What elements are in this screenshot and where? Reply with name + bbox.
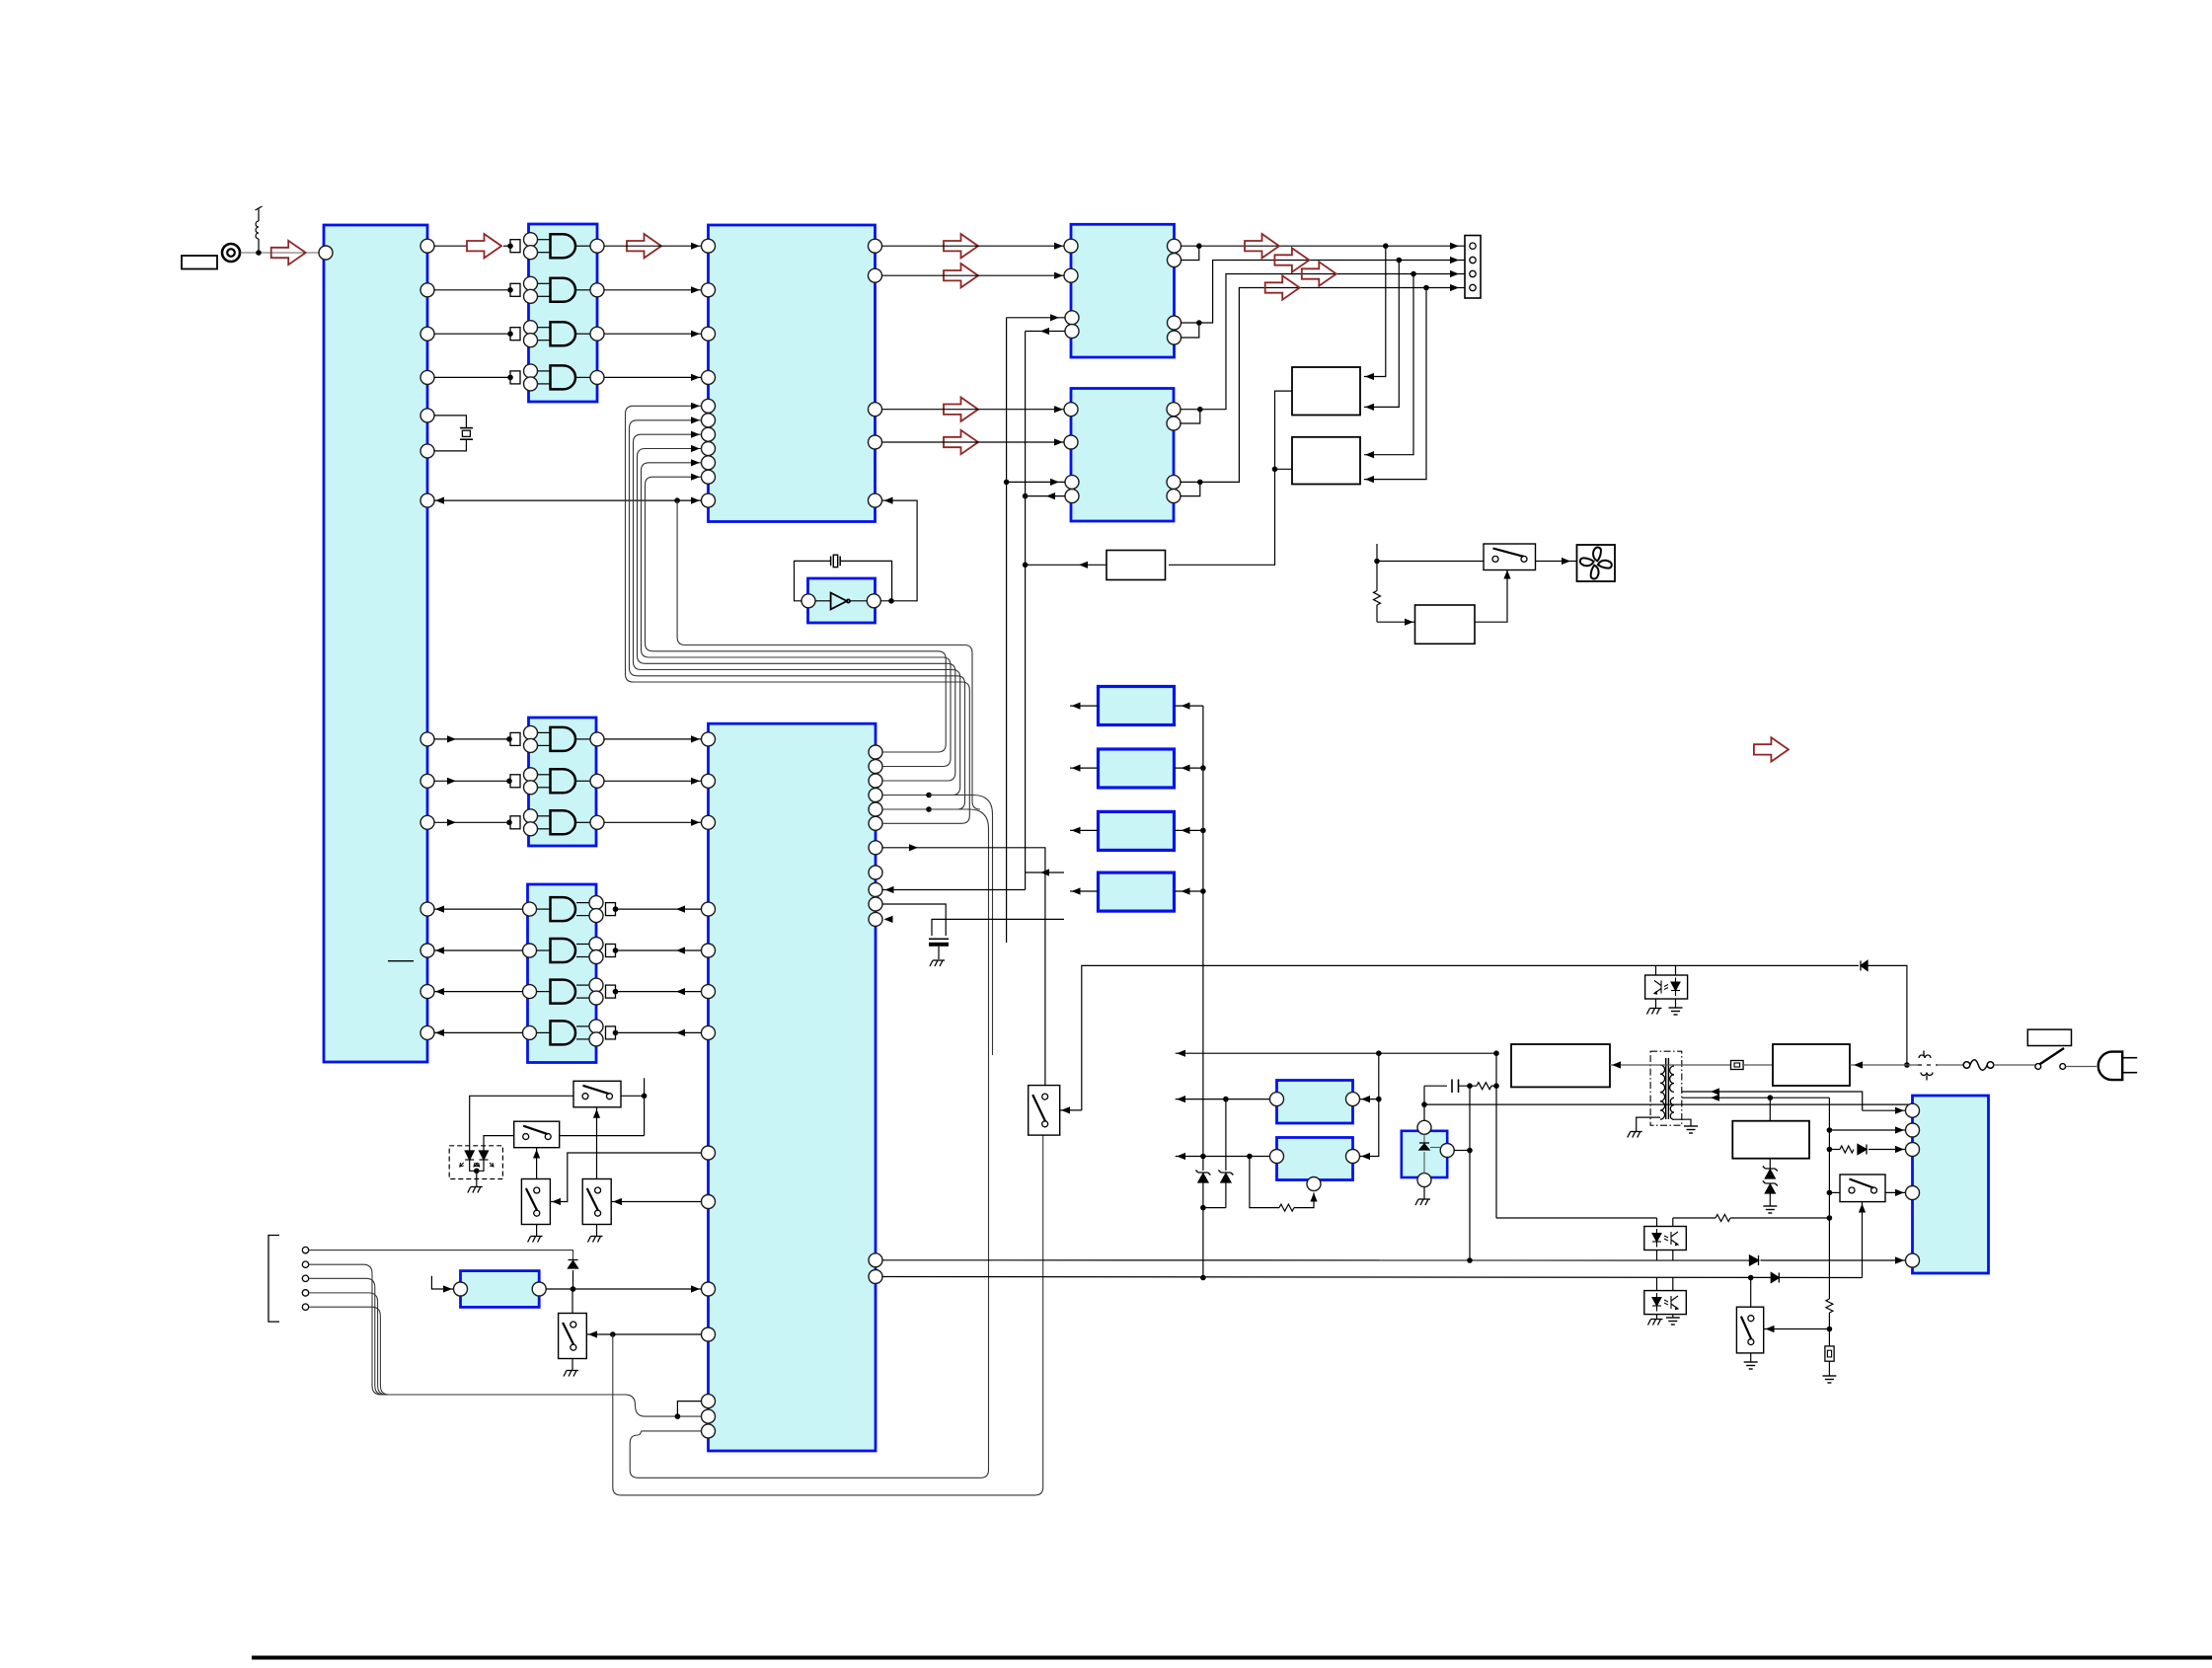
diode D5 [1750,1255,1759,1265]
reg box C4 [1099,872,1175,911]
wire reg box C4 left [1070,890,1098,892]
wire PC2 collector [1672,1278,1674,1291]
wire F3 gnd [1828,1361,1830,1376]
transformer primary [1660,1065,1665,1119]
wire B3 gnd [1423,1187,1425,1199]
wire IC1.1-G1 [434,245,467,247]
pin IC6 g1 [702,732,716,746]
terminal CN1-3 [1470,270,1476,276]
pin IC1 out4 [420,370,434,384]
wire pin3 feed [1869,1149,1906,1151]
wire W3 bot [1769,1159,1771,1169]
wire row3 rise [1181,274,1466,410]
pin IC3 b2 [702,414,716,427]
inverter U2 [815,593,867,610]
wire PC2 cathode [1656,1315,1658,1319]
crystal X1 [434,416,473,451]
node G6 in [506,779,512,785]
pin IC4 o3 [1168,316,1182,330]
terminal T2 [302,1261,308,1267]
wire T4 [309,1293,622,1395]
pin IC6 r11 [869,912,882,926]
node AUX [571,1286,576,1292]
wire line1234 left [1496,1217,1657,1219]
wire B3 top up [1423,1086,1425,1120]
wire T1 sec gnd [1674,1119,1691,1126]
wire F1-W2 [1743,1064,1773,1066]
node v2 fan [1023,563,1029,569]
wire LED join [470,1160,484,1171]
node B1 feed [1376,1097,1382,1102]
wire G5-IC6 [604,738,702,740]
node l2-z2 [1223,1097,1229,1102]
terminal CN1-4 [1470,284,1476,290]
wire IC3-IC5 r1 [882,409,1065,411]
wire line1119 [1424,1103,1913,1105]
wire G6-IC6 [604,780,702,782]
wire IC6-G8 [616,908,702,910]
input bracket G4 [510,371,520,384]
wire S5 top [572,1289,573,1314]
pin IC1 g2 [420,774,434,788]
pin IC6 r1 [869,745,882,759]
wire IC1.2-G2 [434,289,510,291]
wire reg box C4 right [1175,890,1203,892]
terminal T4 [302,1290,308,1296]
pin IC3 out1 [869,239,882,253]
opto PC3 [1645,975,1688,999]
wire IC3-IC4 r2 [882,274,1065,276]
transformer sec1 [1670,1066,1674,1092]
wire v1 to IC4 [1007,317,1065,319]
wire S5 gnd [572,1359,573,1371]
wire reg box C1 right [1175,705,1203,707]
terminal CN1-1 [1470,243,1476,249]
wire PC1 collector [1672,1218,1674,1227]
wire row3-RY2 [1364,274,1413,455]
wire S9 bottom [1862,1202,1864,1276]
wire b3 link [640,1431,702,1435]
node row2 join [1196,320,1202,326]
IC2 gate array block [529,224,598,402]
node l3-r [1247,1154,1253,1160]
wire line1234 right [1673,1217,1716,1219]
wire G9-IC1 [434,949,523,951]
wire IC1-IC3 feedback [434,499,702,501]
pin IC4 in4 [1065,325,1079,339]
wire row4 join [1181,482,1200,495]
red arrow A12 [1754,737,1789,761]
terminal T5 [302,1304,308,1310]
diode D6 [1858,1145,1867,1155]
zener ZD4 [1763,1181,1778,1194]
pin IC4 o4 [1168,331,1182,344]
wire PC3 em gnd [1655,999,1657,1008]
node r4 branch [926,793,932,798]
wire F2-S8 [1994,1064,2035,1066]
wire row2-RY1 [1364,261,1399,408]
node v1852 a [1827,1127,1833,1133]
pin IC6 b1 [702,1395,716,1408]
wire A2-G1 [503,245,510,247]
wire sec1 line [1682,1092,1863,1110]
resistor block R10 [1106,551,1166,580]
wire jack to block1 [241,252,324,254]
wire zjoin [1203,1207,1226,1209]
switch label box [2027,1029,2071,1045]
reg box C3 [1099,811,1175,850]
input bracket G5 [510,732,520,745]
node sec2-W3 [1768,1095,1774,1100]
wire z down [1202,1208,1204,1278]
node row4 join [1197,480,1203,486]
pin IC1 l3 [420,985,434,999]
wire S5 long [613,1135,1043,1495]
wire IC6-G9 [616,949,702,951]
wire S2 right [560,1135,645,1137]
IC1 main block [324,225,427,1062]
fan motor M1 [1577,545,1616,581]
switch S9 [1840,1175,1885,1202]
node B3 line [1421,1101,1427,1107]
aux interface box [461,1271,540,1308]
diode D7 [1771,1273,1779,1283]
pin IC3 in3 [702,327,716,341]
pin B1 in [1346,1093,1360,1106]
wire bus v2 [1025,332,1027,890]
node G7 in [506,820,512,826]
node zb1 [1200,765,1206,771]
pin B2 out [1270,1150,1284,1164]
pin IC3 osc [869,493,882,507]
wire PC2 anode [1656,1278,1658,1291]
wire row2 rise [1199,261,1465,324]
AND gate G9 [523,938,604,964]
pin IC3 b4 [702,442,716,456]
LED indicator box [449,1146,502,1179]
thermal fuse F2 [1963,1060,1994,1071]
pin IC1 g1 [420,732,434,746]
pin IC6 in3 [702,1282,716,1296]
pin IC1 l2 [420,944,434,957]
noise filter block W1 [1511,1044,1610,1087]
node zb2 [1200,828,1206,834]
wire IC6-S3 [551,1153,702,1202]
ground PC3 tr [1647,1009,1662,1015]
wire reg box C3 right [1175,829,1203,831]
pin IC6 r5 [869,802,882,816]
pin IC6 r6 [869,816,882,830]
wire PC1 anode [1656,1218,1658,1227]
IC5 block [1071,389,1174,522]
diode D4 [1861,960,1868,970]
node G9 in [613,948,619,953]
AND gate G1 [524,233,605,260]
node G3 in [507,331,513,337]
wire PC3 cath gnd [1675,999,1677,1008]
wire bus c3 [882,663,955,781]
wire row2 join [1181,322,1199,324]
pin IC5 in2 [1064,435,1078,449]
red arrow A1 [271,241,306,265]
transformer T1 box [1650,1051,1682,1125]
wire fb line7 [677,500,980,809]
pin IC1 l1 [420,902,434,916]
wire fan-SW [1377,561,1484,563]
wire PC1 cathode [1656,1251,1658,1261]
wire cap-res [1459,1085,1478,1087]
AND gate G11 [523,1020,604,1046]
LED D2 [474,1151,494,1167]
wire IC6-G11 [616,1031,702,1033]
wire G1-IC3 [604,245,701,247]
red arrow A11 [1265,275,1300,299]
node S1S2 [642,1094,648,1099]
AND gate G4 [524,364,605,391]
pin IC1 out2 [420,283,434,297]
pin IC6 r13 [869,1270,882,1284]
transformer sec2 [1670,1098,1674,1119]
wire ZD4 gnd [1769,1193,1771,1206]
pin IC5 o3 [1167,475,1181,489]
wire row1 [1181,245,1465,247]
node row1 drop [1383,243,1389,249]
node G4 in [507,375,513,381]
wire row4 rise [1181,288,1466,483]
shunt reg B3 [1402,1131,1447,1177]
wire v1489 [1469,1086,1471,1260]
red arrow A9 [1274,248,1309,271]
relay driver RY1 [1292,367,1360,416]
pin IC1 out1 [420,239,434,253]
wire bus b4 [638,449,929,664]
resistor R11 [1376,562,1378,591]
wire pin1 feed [1863,1109,1906,1111]
crystal X2 [831,555,841,567]
node y978-AC [1904,1062,1910,1068]
AND gate G8 [523,896,604,923]
wire S4 gnd [596,1225,598,1237]
ground S5 [564,1371,578,1377]
ground C20 [930,960,945,966]
wire osc loop2 [840,561,891,600]
ground S7 [1744,1362,1758,1369]
wire AC main [1650,1064,1731,1066]
pin B3 bot [1417,1174,1431,1187]
ground T1 primary [1628,1132,1642,1138]
wire ZD1 bot [1202,1182,1204,1208]
wire W1 arrow [1610,1064,1650,1066]
ground PC2 tr [1666,1318,1680,1325]
node b2 branch [675,1413,681,1419]
wire r10-C20 [882,904,946,936]
pin IC1 xtal2 [420,444,434,458]
input bracket G2 [510,283,520,296]
pin IC6 l3 [702,985,716,999]
pin IC3 b5 [702,456,716,470]
input bracket G11 [606,1026,616,1039]
wire PC3 anode [1675,965,1677,975]
wire row1 join [1181,246,1199,260]
wire r9 bus [882,889,1026,891]
wire T3 [309,1278,622,1395]
reg box C2 [1099,749,1175,788]
wire G10-IC1 [434,991,523,993]
wire PC1 emitter [1672,1251,1674,1261]
pin AUX in [454,1282,468,1296]
node zjoin [1200,1205,1206,1211]
AND gate G3 [524,321,605,347]
IC7 gate block [529,718,597,846]
wire pin3 res [1829,1149,1840,1151]
AND gate G10 [523,978,604,1005]
pin P 5 [1906,1253,1920,1267]
pin IC3 in1 [702,239,716,253]
antenna inductor L1 [256,206,263,253]
red arrow A3 [627,234,661,258]
transformer core [1665,1058,1667,1119]
AND gate G7 [524,809,605,836]
wire bus c6 [882,682,969,823]
wire T1 [309,1251,573,1260]
wire IC1-G6 [434,780,510,782]
wire AUX out [546,1288,701,1290]
opto PC1 [1644,1227,1687,1251]
pin AUX out [532,1282,546,1296]
pin IC6 l1 [702,902,716,916]
pin IC1 l4 [420,1025,434,1039]
wire stub line3 [1176,1156,1277,1158]
node v1852 e [1827,1327,1833,1332]
node v1489 b3 [1467,1148,1473,1154]
wire reg box C2 right [1175,767,1203,769]
wire G2-IC3 [604,289,701,291]
node G10 in [613,989,619,995]
zener ZD1 [1195,1171,1210,1183]
pin B2 in [1346,1150,1360,1164]
zener ZD2 [1225,1099,1227,1171]
wire R21-dn [1828,1313,1830,1346]
wire osc loop [795,561,831,600]
wire tbus corner [622,1395,702,1416]
node feedback branch [674,497,680,503]
wire b1 branch [677,1402,701,1417]
node v1852 c [1827,1190,1833,1196]
wire S1 stub [644,1078,646,1135]
pin IC6 g3 [702,815,716,829]
pin IC3 out2 [869,268,882,282]
wire v2 to IC6 [1026,872,1064,873]
wire IC6-S4 [611,1201,701,1203]
node G2 in [507,287,513,293]
node RY2 out [1272,467,1278,473]
switch S1 [573,1081,621,1107]
wire R10 out [1026,564,1106,566]
wire v1 to IC5 [1007,481,1065,483]
pin IC6 b2 [702,1409,716,1423]
pin IC6 g2 [702,774,716,788]
IC3 decoder block [709,225,876,522]
pin IC6 l2 [702,944,716,957]
wire S1 left [470,1096,573,1151]
wire stub line2 [1176,1099,1277,1100]
ground S4 [588,1237,603,1243]
pin IC5 in3 [1065,475,1079,489]
ground B3 [1415,1199,1430,1205]
wire R12-SW [1475,570,1507,623]
wire G8-IC1 [434,908,523,910]
node row3 join [1197,407,1203,413]
wire r11-C20 [932,919,1064,936]
ground LEDs [468,1187,483,1193]
pin B3 right [1440,1144,1454,1158]
wire bus c1 [882,651,946,752]
pin IC6 r10 [869,897,882,911]
node l1-c [1493,1050,1499,1056]
resistor R21 [1826,1299,1833,1313]
switch S6 [1029,1086,1060,1136]
pin IC1 io5 [420,493,434,507]
ground W3 [1763,1206,1777,1213]
snubber block W3 [1732,1121,1809,1159]
IC8 gate block [528,884,597,1063]
node v1852 d [1827,1215,1833,1221]
pin IC6 r3 [869,774,882,788]
wire IC3-IC4 r1 [882,245,1065,247]
red arrow A5 [944,264,978,287]
wire S2 left [484,1136,514,1151]
wire fan stub [1376,544,1378,562]
node row1 [1196,243,1202,249]
wire r7-S6 [882,848,1045,1086]
pin IC1 input [319,246,333,260]
pin P 4 [1906,1186,1920,1200]
pin IC6 in4 [702,1327,716,1341]
wire S9 right [1885,1191,1906,1193]
pin B3 top [1417,1120,1431,1134]
wire RY1 out [1275,391,1293,469]
pin IC6 r12 [869,1253,882,1267]
node fan [1374,559,1380,565]
wire PC2 emitter [1672,1315,1674,1318]
switch S4 [582,1179,611,1225]
regulator B2 [1277,1138,1353,1180]
wire PC3 collector [1655,965,1657,975]
wire zener bus top [1202,706,1204,1171]
pin IC6 sw1 [702,1146,716,1160]
pin IC4 o2 [1168,254,1182,267]
pin IC3 out3 [869,403,882,417]
wire IC1-G7 [434,821,510,823]
wire bus c5 [882,676,965,809]
B3 internal diode [1419,1134,1441,1174]
ground F3 [1822,1376,1836,1383]
AC plug P1 [2098,1052,2122,1081]
phone jack J1 [222,244,240,262]
wire line1294 end [1862,1276,1864,1278]
node S5 branch [610,1331,616,1337]
wire RY down [1169,469,1275,565]
node r5 branch [926,806,932,812]
thermistor block R12 [1415,605,1476,644]
oscillator inverter block [808,578,876,623]
pin IC3 in4 [702,370,716,384]
wire bus b6 [646,477,929,651]
wire S7 gnd [1750,1353,1752,1362]
wire S8-plug [2066,1066,2097,1068]
ground PC2 led [1648,1320,1663,1326]
pin P 1 [1906,1103,1920,1117]
